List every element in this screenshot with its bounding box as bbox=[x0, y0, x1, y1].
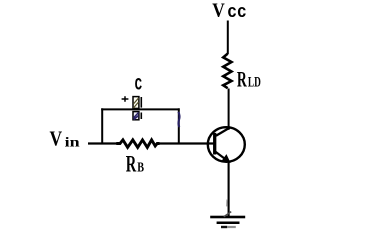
node Vcc label bbox=[212, 0, 246, 23]
label RLD bbox=[237, 68, 261, 92]
svg-text:C: C bbox=[135, 77, 143, 96]
wire RB to base bbox=[159, 142, 214, 144]
capacitor plus sign bbox=[122, 96, 129, 102]
wire loop left vertical bbox=[101, 108, 103, 143]
ground bbox=[210, 200, 245, 229]
svg-text:in: in bbox=[65, 136, 80, 151]
blue artifact on right vertical bbox=[178, 112, 179, 127]
capacitor C upper plate bbox=[133, 97, 139, 109]
svg-text:R: R bbox=[126, 150, 137, 176]
transistor base bar bbox=[213, 133, 216, 155]
transistor collector diagonal bbox=[216, 127, 230, 136]
transistor emitter diagonal bbox=[216, 152, 229, 162]
transistor emitter arrowhead bbox=[222, 155, 230, 163]
svg-text:B: B bbox=[137, 160, 144, 175]
svg-text:LD: LD bbox=[248, 75, 261, 91]
resistor RLD bbox=[223, 54, 231, 89]
transistor Q1 circle bbox=[208, 127, 245, 162]
resistor RB bbox=[116, 140, 159, 148]
wire RLD to collector bbox=[228, 89, 230, 130]
node Vin label bbox=[50, 127, 80, 151]
label RB bbox=[126, 150, 144, 176]
svg-text:cc: cc bbox=[227, 1, 246, 23]
capacitor right plate line upper bbox=[140, 97, 142, 108]
wire emitter to ground bbox=[228, 162, 230, 217]
svg-text:V: V bbox=[212, 0, 225, 21]
wire loop right vertical bbox=[178, 108, 180, 143]
wire loop top bbox=[101, 108, 179, 110]
wire Vin to RB bbox=[88, 142, 117, 144]
svg-text:V: V bbox=[50, 127, 63, 151]
capacitor C lower plate bbox=[133, 112, 139, 120]
wire Vcc to RLD bbox=[227, 21, 229, 55]
svg-text:R: R bbox=[237, 68, 247, 92]
capacitor right plate line lower bbox=[140, 113, 142, 120]
